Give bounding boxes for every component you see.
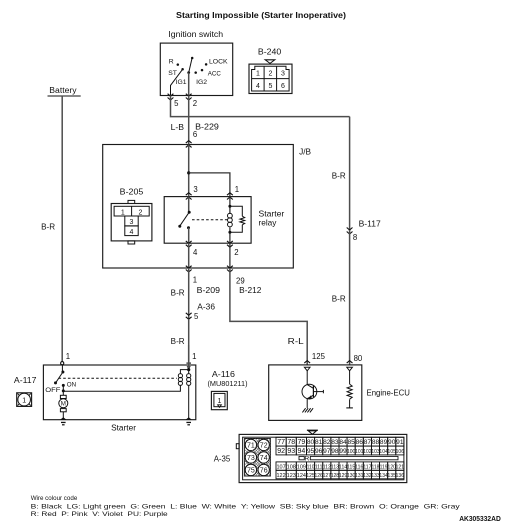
svg-text:B-209: B-209 xyxy=(197,286,221,295)
svg-text:91: 91 xyxy=(396,439,404,446)
svg-text:B: Black LG: Light green G:: B: Black LG: Light green G: Green L: Blu… xyxy=(31,503,461,510)
svg-text:2: 2 xyxy=(268,71,272,78)
label ON xyxy=(67,382,77,389)
svg-text:B-117: B-117 xyxy=(359,220,382,229)
svg-text:A-35: A-35 xyxy=(214,454,231,463)
ignition contact ACC xyxy=(201,69,221,78)
svg-text:Starting Impossible (Starter I: Starting Impossible (Starter Inoperative… xyxy=(176,11,346,20)
svg-text:6: 6 xyxy=(193,130,197,139)
svg-text:88: 88 xyxy=(372,439,380,446)
ground starter solenoid xyxy=(186,417,192,425)
label B-209 xyxy=(197,286,221,295)
svg-text:73: 73 xyxy=(247,455,255,462)
title xyxy=(176,11,346,20)
svg-text:B-R: B-R xyxy=(332,295,346,304)
svg-text:112: 112 xyxy=(323,464,331,470)
svg-text:85: 85 xyxy=(347,439,355,446)
transistor base lead xyxy=(313,390,323,393)
svg-text:Starter: Starter xyxy=(259,209,285,218)
svg-text:Ignition switch: Ignition switch xyxy=(168,30,223,39)
label 2 xyxy=(193,99,197,108)
svg-text:3: 3 xyxy=(281,71,285,78)
relay entry arrows pin1 xyxy=(227,193,233,200)
svg-text:113: 113 xyxy=(331,464,339,470)
connector A-117 icon xyxy=(17,393,32,407)
svg-text:78: 78 xyxy=(287,439,295,446)
label 1 solenoid pin xyxy=(192,352,196,361)
A-35 circle block xyxy=(223,439,333,477)
label 1 relay pin xyxy=(235,185,239,194)
svg-text:136: 136 xyxy=(396,473,405,479)
connector B-205 top tab xyxy=(128,200,135,203)
svg-text:72: 72 xyxy=(260,443,268,450)
label B-R battery wire xyxy=(41,223,55,232)
relay dashed link xyxy=(192,219,228,221)
svg-text:114: 114 xyxy=(339,464,347,470)
svg-text:117: 117 xyxy=(363,464,371,470)
svg-text:J/B: J/B xyxy=(299,148,311,157)
svg-text:B-R: B-R xyxy=(171,337,185,346)
svg-text:1: 1 xyxy=(66,352,70,361)
A-35 pins 92-106 xyxy=(276,446,404,455)
svg-text:86: 86 xyxy=(356,439,364,446)
connector B-205 cells xyxy=(114,206,149,235)
starter switch contacts xyxy=(54,371,65,387)
wire battery to starter (B-R) xyxy=(61,96,63,362)
svg-text:5: 5 xyxy=(194,312,199,321)
svg-text:75: 75 xyxy=(247,468,255,475)
svg-text:124: 124 xyxy=(297,473,306,479)
svg-text:122: 122 xyxy=(277,473,286,479)
wire relay pin2 to J/B edge xyxy=(229,243,231,268)
label R-L xyxy=(288,337,305,346)
relay entry arrows pin3 xyxy=(186,193,192,200)
ECU pin 80 triangle xyxy=(347,367,353,371)
label 80 xyxy=(354,354,363,363)
connector A-36 arrows xyxy=(186,313,192,320)
label 1 B-209 pin xyxy=(193,276,197,285)
node junction in J/B xyxy=(187,171,190,174)
battery xyxy=(48,86,81,96)
svg-text:1: 1 xyxy=(218,398,222,405)
ground starter motor xyxy=(60,417,66,425)
A-35 pins 71-76 xyxy=(245,439,269,475)
svg-text:IG1: IG1 xyxy=(176,79,187,86)
label A-36 xyxy=(197,302,215,311)
svg-text:4: 4 xyxy=(256,83,260,90)
wire colour code xyxy=(31,495,461,518)
ground ECU xyxy=(302,408,313,412)
label Starter xyxy=(111,423,136,432)
svg-text:92: 92 xyxy=(277,448,285,455)
starter box xyxy=(43,365,195,420)
svg-text:ST: ST xyxy=(168,70,177,77)
label 2 relay out xyxy=(234,248,238,257)
wire branch to relay coil xyxy=(189,173,230,197)
svg-text:B-229: B-229 xyxy=(195,122,219,131)
svg-text:6: 6 xyxy=(281,83,285,90)
svg-text:R: R xyxy=(305,455,310,462)
svg-text:80: 80 xyxy=(354,354,363,363)
wire motor to ground xyxy=(62,412,64,418)
relay coil wire top xyxy=(229,197,231,214)
svg-text:79: 79 xyxy=(298,439,306,446)
svg-text:125: 125 xyxy=(312,352,326,361)
relay switch contacts xyxy=(178,211,190,230)
relay exit arrows pin2 xyxy=(227,241,233,247)
svg-text:(MU801211): (MU801211) xyxy=(208,379,248,388)
A-35 left tab xyxy=(236,444,239,449)
relay switch wire bottom xyxy=(188,228,190,243)
starter solenoid entry xyxy=(186,363,191,369)
svg-text:82: 82 xyxy=(323,439,331,446)
node relay coil top xyxy=(228,205,231,208)
svg-text:R: Red P: Pink V: Violet PU: R: Red P: Pink V: Violet PU: Purple xyxy=(31,511,168,518)
label B-212 xyxy=(239,286,262,295)
svg-text:93: 93 xyxy=(287,448,295,455)
B-240 pin numbers xyxy=(256,71,285,91)
wire pin2 down to J/B xyxy=(188,96,190,145)
solenoid pull-in coil xyxy=(63,370,188,392)
label B-R right lower xyxy=(332,295,346,304)
pin 5 pass-through arrows xyxy=(168,94,174,100)
starter dashed link xyxy=(59,377,177,379)
svg-text:77: 77 xyxy=(277,439,285,446)
svg-text:1: 1 xyxy=(256,71,260,78)
diagram code xyxy=(459,516,501,523)
svg-text:B-205: B-205 xyxy=(120,188,144,197)
svg-text:ACC: ACC xyxy=(208,70,221,77)
wire B-212 to ECU xyxy=(230,268,307,365)
svg-text:3: 3 xyxy=(130,219,134,226)
svg-text:81: 81 xyxy=(315,439,323,446)
starter switch wire xyxy=(61,365,63,372)
wire pin5 to right side xyxy=(171,96,350,117)
connector B-117 arrows xyxy=(347,228,353,235)
ECU entry chevron 80 xyxy=(347,361,353,364)
svg-text:A-116: A-116 xyxy=(212,370,236,379)
svg-text:98: 98 xyxy=(331,448,339,455)
A-35 pins 77-91 xyxy=(276,437,404,446)
svg-text:R: R xyxy=(169,59,174,66)
wire resistor stub xyxy=(346,399,353,408)
relay coil wire bottom xyxy=(229,228,231,244)
svg-text:83: 83 xyxy=(331,439,339,446)
svg-text:1: 1 xyxy=(193,276,197,285)
starter terminal circle xyxy=(61,362,64,365)
connector B-240 inner box xyxy=(252,66,290,91)
wire solenoid entry xyxy=(188,345,190,370)
svg-text:87: 87 xyxy=(364,439,372,446)
svg-text:108: 108 xyxy=(287,465,296,471)
node motor junction xyxy=(62,389,65,392)
connector B-205 label xyxy=(120,188,144,197)
wire transistor to ground xyxy=(306,399,308,408)
label J/B xyxy=(299,148,311,157)
svg-text:5: 5 xyxy=(268,83,272,90)
svg-text:R-L: R-L xyxy=(288,337,305,346)
svg-text:relay: relay xyxy=(259,219,278,228)
relay coil xyxy=(228,213,233,227)
svg-text:AK305332AD: AK305332AD xyxy=(459,516,501,523)
svg-text:90: 90 xyxy=(388,439,396,446)
svg-text:76: 76 xyxy=(260,468,268,475)
wire relay pin4 to J/B edge xyxy=(188,243,190,268)
engine ECU box xyxy=(269,365,362,421)
svg-text:115: 115 xyxy=(347,464,355,470)
svg-text:111: 111 xyxy=(315,464,323,470)
wire B-117 to ECU xyxy=(349,230,351,365)
ignition IG2 wire xyxy=(188,73,190,95)
ignition switch box xyxy=(160,43,232,95)
svg-text:97: 97 xyxy=(323,448,331,455)
svg-text:4: 4 xyxy=(130,229,134,236)
label B-R lower xyxy=(171,337,185,346)
transistor Q1 xyxy=(302,384,317,399)
wire ECU 125 to transistor xyxy=(306,371,308,385)
svg-text:Wire colour code: Wire colour code xyxy=(31,495,78,502)
label 3 relay pin xyxy=(193,185,197,194)
label 5 xyxy=(174,99,179,108)
svg-text:Engine-ECU: Engine-ECU xyxy=(367,388,411,397)
pin 2 pass-through arrows xyxy=(186,94,192,100)
svg-text:89: 89 xyxy=(380,439,388,446)
svg-text:B-212: B-212 xyxy=(239,286,262,295)
svg-text:4: 4 xyxy=(193,248,198,257)
ignition switch wiper xyxy=(187,57,197,74)
svg-text:L-B: L-B xyxy=(171,123,184,132)
svg-text:B-R: B-R xyxy=(171,289,185,298)
label IG1 xyxy=(176,79,187,86)
label Engine-ECU xyxy=(367,388,411,397)
wire B-209 to A-36 xyxy=(188,268,190,319)
svg-text:84: 84 xyxy=(339,439,347,446)
connector B-240 label xyxy=(258,47,282,56)
svg-text:107: 107 xyxy=(277,465,286,471)
connector B-205 bottom tab xyxy=(128,241,135,244)
ignition contact ST xyxy=(168,68,184,77)
connector B-240 outer box xyxy=(249,64,292,93)
svg-text:74: 74 xyxy=(260,455,268,462)
label B-229 xyxy=(195,122,219,131)
svg-text:94: 94 xyxy=(298,448,306,455)
svg-text:LOCK: LOCK xyxy=(209,58,228,65)
label 1 starter pin left xyxy=(66,352,70,361)
resistor in ECU xyxy=(347,384,352,399)
svg-text:109: 109 xyxy=(297,465,306,471)
svg-text:A-36: A-36 xyxy=(197,302,215,311)
svg-text:Starter: Starter xyxy=(111,423,136,432)
relay exit arrows pin4 xyxy=(186,241,192,247)
connector B-240 triangle xyxy=(265,60,275,64)
svg-text:IG2: IG2 xyxy=(196,79,207,86)
svg-text:1: 1 xyxy=(121,209,125,216)
label 6 xyxy=(193,130,197,139)
svg-text:5: 5 xyxy=(174,99,179,108)
svg-text:1: 1 xyxy=(235,185,239,194)
junction block J/B box xyxy=(103,145,294,269)
svg-text:116: 116 xyxy=(355,464,363,470)
ECU entry chevron 125 xyxy=(304,361,310,364)
wire A-36 to starter xyxy=(188,319,190,363)
connector A-116 icon xyxy=(211,391,227,409)
label IG2 xyxy=(196,79,207,86)
label 5 A-36 pin xyxy=(194,312,199,321)
svg-text:3: 3 xyxy=(193,185,197,194)
starter relay box xyxy=(164,197,251,244)
relay parallel resistor branch xyxy=(230,206,245,232)
svg-text:OFF: OFF xyxy=(45,387,60,394)
label B-R right upper xyxy=(332,171,346,180)
svg-text:29: 29 xyxy=(236,277,245,286)
wire switch to motor xyxy=(62,385,64,395)
A-35 pins 122-136 xyxy=(276,470,404,479)
svg-text:2: 2 xyxy=(193,99,197,108)
svg-text:118: 118 xyxy=(371,464,379,470)
svg-text:95: 95 xyxy=(307,448,315,455)
svg-text:80: 80 xyxy=(307,439,315,446)
svg-text:121: 121 xyxy=(396,464,405,470)
wire inside J/B down to relay xyxy=(188,145,190,197)
svg-text:71: 71 xyxy=(247,443,255,450)
B-205 pin numbers xyxy=(121,209,143,236)
J/B exit arrows B-212 xyxy=(227,266,233,272)
wire ignition to B-117 xyxy=(349,117,351,231)
label OFF xyxy=(45,387,60,394)
svg-text:96: 96 xyxy=(315,448,323,455)
label B-117 xyxy=(359,220,382,229)
svg-text:2: 2 xyxy=(138,209,142,216)
ignition contact R xyxy=(169,59,179,66)
svg-text:B-240: B-240 xyxy=(258,47,282,56)
label 4 xyxy=(193,248,198,257)
node solenoid junction xyxy=(187,368,190,371)
solenoid hold-in coil xyxy=(187,370,191,418)
relay switch wire top xyxy=(188,197,190,213)
connector A-116 label xyxy=(208,370,248,388)
node relay coil bottom xyxy=(228,231,231,234)
wire ECU 80 to resistor xyxy=(349,371,351,384)
A-35 outer box xyxy=(239,434,407,482)
ECU pin 125 triangle xyxy=(304,367,310,371)
svg-text:B-R: B-R xyxy=(41,223,55,232)
connector A-117 label xyxy=(14,376,37,385)
A-35 inner box xyxy=(243,437,404,480)
svg-text:M: M xyxy=(61,401,66,408)
svg-text:110: 110 xyxy=(307,464,315,470)
connector B-240 grid xyxy=(252,66,290,91)
svg-text:B-R: B-R xyxy=(332,171,346,180)
A-35 key slot xyxy=(299,455,398,462)
svg-text:ON: ON xyxy=(67,382,77,389)
label 29 B-212 pin xyxy=(236,277,245,286)
connector B-205 outer box xyxy=(111,204,152,241)
label 8 B-117 pin xyxy=(353,233,357,242)
svg-text:123: 123 xyxy=(287,473,296,479)
svg-text:106: 106 xyxy=(396,449,405,455)
J/B entry arrows pin 6 xyxy=(186,141,192,148)
svg-text:Battery: Battery xyxy=(49,86,76,95)
A-35 pins 107-121 xyxy=(276,462,404,471)
label L-B xyxy=(171,123,184,132)
svg-text:99: 99 xyxy=(339,448,347,455)
svg-text:1: 1 xyxy=(22,397,26,404)
ignition contact LOCK xyxy=(205,58,228,65)
ignition ST blade wire xyxy=(171,69,183,95)
svg-text:1: 1 xyxy=(192,352,196,361)
label starter relay xyxy=(259,209,285,227)
svg-text:2: 2 xyxy=(234,248,238,257)
connector A-35 label xyxy=(214,454,231,463)
label B-R left xyxy=(171,289,185,298)
A-35 top marker xyxy=(307,430,318,434)
J/B exit arrows B-209 xyxy=(186,266,192,272)
svg-text:8: 8 xyxy=(353,233,357,242)
motor M xyxy=(59,395,68,412)
label 125 xyxy=(312,352,326,361)
svg-text:A-117: A-117 xyxy=(14,376,37,385)
ignition switch label xyxy=(168,30,223,39)
